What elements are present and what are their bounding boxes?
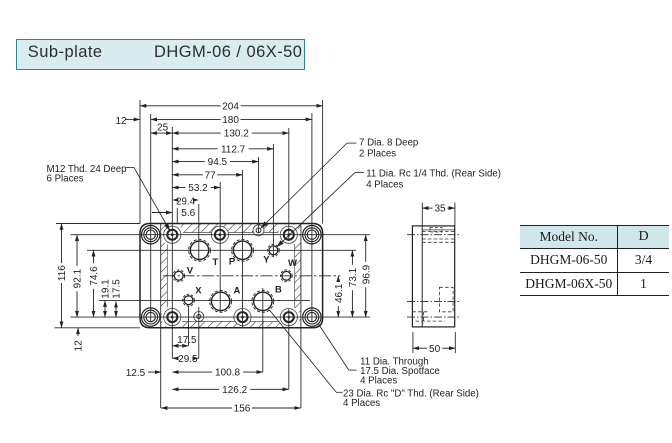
svg-text:35: 35 bbox=[434, 204, 446, 215]
svg-text:P: P bbox=[229, 256, 236, 267]
svg-text:17.5: 17.5 bbox=[112, 279, 123, 299]
svg-text:5.6: 5.6 bbox=[181, 208, 195, 219]
svg-text:2 Places: 2 Places bbox=[359, 148, 396, 159]
svg-text:29.4: 29.4 bbox=[176, 197, 195, 208]
svg-text:73.1: 73.1 bbox=[348, 267, 359, 287]
svg-text:204: 204 bbox=[222, 101, 239, 112]
svg-text:77: 77 bbox=[204, 170, 216, 181]
svg-text:Y: Y bbox=[263, 255, 270, 266]
svg-text:X: X bbox=[195, 285, 202, 296]
svg-text:A: A bbox=[234, 286, 241, 297]
svg-text:156: 156 bbox=[234, 404, 251, 415]
svg-text:29.5: 29.5 bbox=[178, 354, 198, 365]
svg-text:19.1: 19.1 bbox=[101, 279, 112, 299]
svg-text:50: 50 bbox=[429, 344, 441, 355]
svg-text:74.6: 74.6 bbox=[89, 266, 100, 286]
svg-text:4 Places: 4 Places bbox=[343, 398, 380, 409]
svg-text:12.5: 12.5 bbox=[126, 368, 146, 379]
svg-text:100.8: 100.8 bbox=[215, 368, 240, 379]
svg-text:12: 12 bbox=[116, 116, 128, 127]
svg-text:94.5: 94.5 bbox=[208, 157, 228, 168]
svg-text:116: 116 bbox=[57, 265, 68, 281]
svg-text:B: B bbox=[275, 284, 282, 295]
svg-text:T: T bbox=[213, 257, 219, 268]
svg-text:130.2: 130.2 bbox=[224, 129, 249, 140]
svg-text:V: V bbox=[187, 265, 194, 276]
svg-text:7 Dia. 8 Deep: 7 Dia. 8 Deep bbox=[359, 137, 418, 148]
svg-text:W: W bbox=[288, 258, 297, 269]
svg-text:6 Places: 6 Places bbox=[47, 174, 84, 185]
svg-text:12: 12 bbox=[74, 340, 85, 352]
svg-text:96.9: 96.9 bbox=[361, 264, 372, 284]
svg-text:53.2: 53.2 bbox=[188, 183, 208, 194]
svg-text:180: 180 bbox=[222, 115, 239, 126]
svg-text:46.1: 46.1 bbox=[334, 283, 345, 303]
svg-text:126.2: 126.2 bbox=[222, 385, 247, 396]
svg-text:92.1: 92.1 bbox=[73, 268, 84, 288]
svg-text:4 Places: 4 Places bbox=[366, 179, 403, 190]
svg-text:25: 25 bbox=[157, 123, 169, 134]
svg-text:112.7: 112.7 bbox=[221, 144, 246, 155]
svg-text:4 Places: 4 Places bbox=[360, 376, 397, 387]
svg-text:11 Dia. Rc 1/4 Thd. (Rear Side: 11 Dia. Rc 1/4 Thd. (Rear Side) bbox=[366, 168, 501, 179]
svg-text:17.5: 17.5 bbox=[177, 335, 197, 346]
